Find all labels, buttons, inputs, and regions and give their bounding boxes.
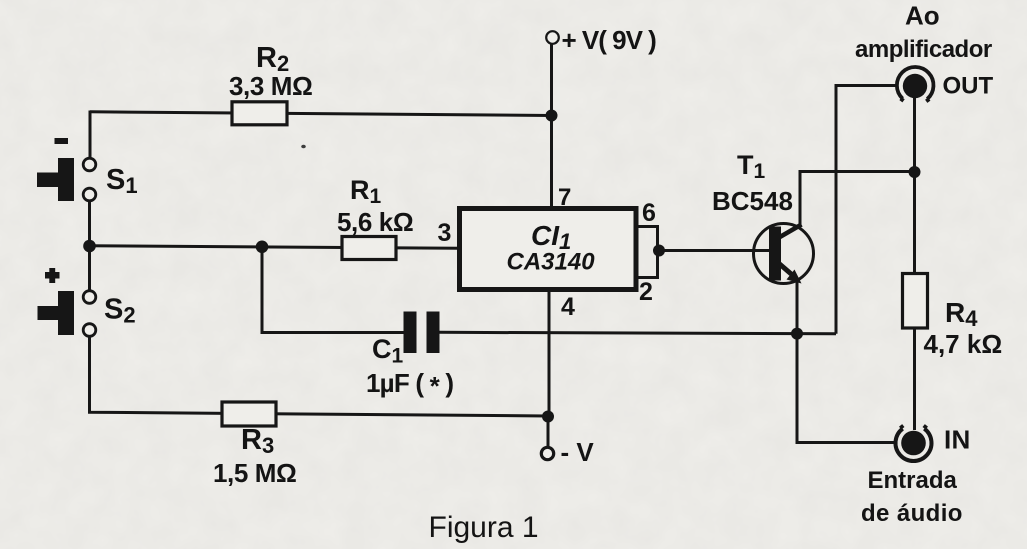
jack OUT center bbox=[903, 74, 927, 98]
svg-text:5,6 kΩ: 5,6 kΩ bbox=[337, 207, 413, 237]
switch S2 contact bottom bbox=[83, 324, 96, 337]
svg-text:2: 2 bbox=[639, 278, 653, 306]
wire S2 to bottom rail bbox=[90, 337, 549, 417]
wire OUT jack down bbox=[913, 97, 916, 274]
svg-text:de áudio: de áudio bbox=[861, 500, 963, 527]
jack OUT ring bbox=[897, 67, 934, 102]
svg-text:4,7 kΩ: 4,7 kΩ bbox=[924, 329, 1003, 359]
resistor R1 bbox=[342, 237, 396, 260]
node dot -V rail bbox=[542, 411, 554, 423]
svg-text:3: 3 bbox=[438, 219, 452, 247]
node dot emitter bbox=[791, 328, 803, 340]
node dot C1 branch bbox=[256, 241, 269, 254]
switch S2 actuator bbox=[38, 291, 75, 335]
svg-text:OUT: OUT bbox=[943, 73, 994, 100]
terminal +V bbox=[546, 31, 559, 44]
svg-text:- V: - V bbox=[561, 437, 595, 467]
transistor emitter arrow bbox=[787, 270, 802, 284]
node dot collector rail bbox=[909, 166, 921, 178]
node dot op-amp output bbox=[653, 245, 665, 257]
transistor Q1 circle bbox=[754, 224, 814, 284]
wire top rail bbox=[90, 112, 552, 116]
svg-text:IN: IN bbox=[944, 425, 971, 455]
svg-text:4: 4 bbox=[561, 293, 575, 321]
terminal -V bbox=[541, 447, 553, 459]
svg-text:BC548: BC548 bbox=[712, 186, 793, 216]
svg-text:7: 7 bbox=[558, 184, 571, 211]
wire S1 to S2 bbox=[88, 201, 91, 291]
pin 6-2 bracket top stub bbox=[636, 225, 658, 228]
svg-text:+ V( 9V ): + V( 9V ) bbox=[562, 25, 657, 55]
wire C1 to riser bbox=[439, 332, 836, 334]
jack IN ring bbox=[896, 425, 932, 461]
svg-text:CA3140: CA3140 bbox=[507, 249, 596, 276]
svg-text:amplificador: amplificador bbox=[855, 36, 992, 63]
switch S1 contact bottom bbox=[83, 188, 96, 201]
svg-text:Ao: Ao bbox=[905, 1, 940, 31]
label plus bbox=[45, 268, 60, 283]
label minus bbox=[55, 138, 69, 144]
ink speck bbox=[301, 145, 306, 149]
jack IN center bbox=[901, 431, 926, 456]
node dot left column bbox=[83, 240, 96, 253]
wire emitter drop bbox=[796, 282, 799, 334]
svg-text:1,5 MΩ: 1,5 MΩ bbox=[213, 458, 296, 488]
node dot +V rail bbox=[546, 110, 558, 122]
wire -V terminal link bbox=[547, 414, 550, 447]
resistor R2 bbox=[232, 102, 287, 125]
switch S1 actuator bbox=[37, 158, 74, 201]
pin 6-2 bracket bottom stub bbox=[636, 276, 658, 279]
wire middle rail to pin 3 bbox=[90, 246, 460, 248]
wire base bbox=[658, 249, 770, 252]
pin 6-2 bracket vertical bbox=[656, 225, 659, 279]
capacitor C1 plate left bbox=[404, 312, 417, 354]
op-amp CI1 box bbox=[460, 209, 637, 290]
wire left column to S1 bbox=[89, 111, 92, 159]
resistor R3 bbox=[222, 402, 276, 426]
wire R4 to IN jack bbox=[913, 328, 916, 430]
svg-text:1µF ( * ): 1µF ( * ) bbox=[366, 368, 453, 401]
svg-text:6: 6 bbox=[642, 199, 656, 227]
wire C1 branch bbox=[262, 247, 404, 333]
switch S2 contact top bbox=[83, 291, 96, 304]
transistor collector stroke bbox=[779, 225, 802, 238]
svg-text:Entrada: Entrada bbox=[868, 467, 958, 494]
capacitor C1 plate right bbox=[427, 312, 440, 354]
transistor emitter stroke bbox=[779, 264, 794, 277]
transistor base bar bbox=[769, 227, 781, 281]
wire riser to OUT bbox=[836, 86, 897, 334]
switch S1 contact top bbox=[83, 158, 96, 171]
wire pin 4 bbox=[548, 289, 551, 415]
wire collector rail bbox=[800, 172, 915, 226]
svg-text:Figura 1: Figura 1 bbox=[429, 511, 539, 544]
resistor R4 bbox=[903, 274, 928, 329]
wire pin 7 bbox=[550, 44, 553, 209]
svg-text:3,3 MΩ: 3,3 MΩ bbox=[229, 71, 312, 101]
wire IN branch bbox=[797, 334, 894, 443]
